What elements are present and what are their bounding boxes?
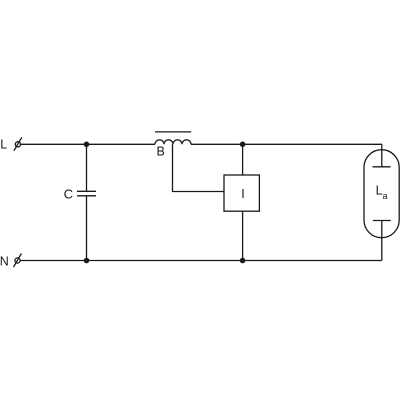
- node junction bottom ignitor: [240, 258, 246, 264]
- inductor B core bar: [155, 131, 191, 133]
- svg-text:N: N: [0, 254, 9, 268]
- node junction top capacitor: [84, 142, 90, 148]
- wire lamp bottom lead: [381, 221, 383, 261]
- svg-text:B: B: [157, 145, 165, 159]
- terminal N: [14, 254, 22, 268]
- node junction bottom capacitor: [84, 258, 90, 264]
- terminal L: [14, 137, 22, 151]
- wire ignitor top leg: [242, 144, 244, 175]
- svg-text:I: I: [241, 187, 244, 201]
- capacitor C: [77, 191, 96, 196]
- wire bottom from N terminal to lamp: [20, 260, 382, 262]
- node junction top ignitor: [240, 142, 246, 148]
- label La: [376, 183, 388, 201]
- wire top from L terminal to inductor: [21, 143, 156, 145]
- svg-text:a: a: [383, 191, 388, 201]
- lamp bottom electrode: [373, 220, 391, 222]
- wire capacitor bottom leg: [86, 196, 88, 261]
- svg-text:L: L: [0, 138, 7, 152]
- wire capacitor top leg: [86, 144, 88, 191]
- lamp top electrode: [373, 166, 391, 168]
- wire top from inductor to lamp: [191, 143, 382, 145]
- svg-text:C: C: [64, 187, 73, 202]
- wire lamp top lead: [381, 144, 383, 167]
- lamp La envelope: [364, 150, 399, 238]
- wire ignitor bottom leg: [242, 211, 244, 260]
- wire inductor tap to ignitor: [173, 144, 225, 191]
- ignitor U1 box: [224, 175, 259, 211]
- inductor B: [155, 140, 191, 144]
